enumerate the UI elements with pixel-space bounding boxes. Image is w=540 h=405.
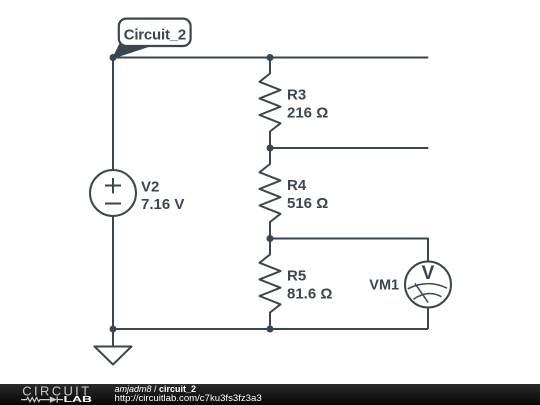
- resistor R3: [260, 58, 281, 149]
- footer credit text: [115, 385, 262, 404]
- svg-text:R5: R5: [287, 268, 306, 285]
- VM1 meter lower arc: [413, 294, 441, 300]
- ground: [112, 329, 114, 347]
- voltage source V2 circle: [90, 170, 136, 216]
- wire top horizontal: [113, 57, 428, 59]
- VM1 meter needle: [415, 283, 428, 302]
- svg-text:R3: R3: [287, 87, 306, 104]
- wire voltmeter bottom lead: [427, 308, 429, 330]
- voltmeter VM1 circle: [405, 262, 451, 308]
- V2 plus sign: [105, 185, 121, 187]
- resistor R4: [260, 148, 281, 239]
- svg-text:R4: R4: [287, 177, 307, 194]
- footer bar: [0, 384, 540, 405]
- svg-text:Circuit_2: Circuit_2: [124, 27, 187, 44]
- wire left vertical upper: [112, 58, 114, 171]
- resistor R5: [260, 239, 281, 330]
- svg-text:81.6 Ω: 81.6 Ω: [287, 286, 332, 303]
- svg-text:LAB: LAB: [64, 395, 93, 404]
- svg-text:7.16 V: 7.16 V: [141, 196, 184, 213]
- node dot top R3: [267, 54, 274, 61]
- node dot bottom R5: [267, 326, 274, 333]
- VM1 meter upper arc: [408, 284, 447, 289]
- V2 minus sign: [105, 203, 121, 205]
- node dot top-left: [110, 54, 117, 61]
- wire mid horizontal R4-R5 junction to voltmeter: [270, 239, 428, 262]
- wire mid horizontal R3-R4 junction: [270, 147, 428, 149]
- svg-text:516 Ω: 516 Ω: [287, 195, 328, 212]
- wire bottom horizontal: [113, 328, 428, 330]
- node dot R3-R4: [267, 145, 274, 152]
- svg-text:V2: V2: [141, 178, 159, 195]
- node dot bottom-left: [110, 326, 117, 333]
- wire left vertical lower: [112, 216, 114, 329]
- svg-text:VM1: VM1: [369, 277, 399, 293]
- node dot R4-R5: [267, 235, 274, 242]
- CircuitLab logo: [0, 384, 110, 405]
- callout Circuit_2 box: [119, 19, 191, 46]
- svg-text:216 Ω: 216 Ω: [287, 105, 328, 122]
- callout Circuit_2 pointer: [113, 44, 151, 59]
- svg-text:V: V: [422, 263, 435, 284]
